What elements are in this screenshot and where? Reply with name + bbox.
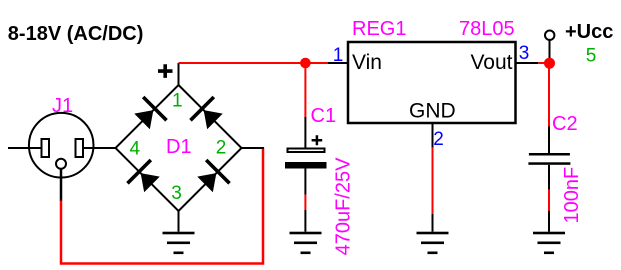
wire output node down to C2 (red): [548, 68, 550, 127]
svg-text:100nF: 100nF: [561, 167, 583, 224]
wire J1 right pin to bridge AC input 4: [83, 147, 116, 149]
wire bridge pin 3 to ground (black): [178, 211, 180, 232]
wire REG1 pin2 to ground (red): [432, 148, 434, 214]
svg-text:2: 2: [216, 138, 227, 159]
wire REG1 pin2 stub (black): [432, 124, 434, 148]
diode D1c (pin3 to pin4): [126, 159, 163, 196]
svg-text:5: 5: [586, 46, 597, 67]
bridge rectifier D1 diamond outline: [116, 85, 242, 211]
wire regulator pin1 stub: [328, 62, 348, 64]
capacitor C2: [528, 153, 570, 165]
wire J1 left stub: [8, 147, 42, 149]
node junction at C1: [300, 58, 311, 69]
wire bridge right vertex to red wire: [242, 147, 265, 149]
svg-text:Vin: Vin: [352, 51, 382, 74]
wire ground pin (black): [304, 210, 306, 232]
svg-text:GND: GND: [409, 100, 456, 123]
svg-text:8-18V (AC/DC): 8-18V (AC/DC): [8, 23, 144, 45]
capacitor C1: [285, 135, 327, 168]
wire J1 bottom pin (black): [60, 169, 63, 201]
svg-text:1: 1: [172, 91, 183, 112]
svg-text:1: 1: [333, 45, 344, 66]
connector J1 body: [29, 113, 94, 178]
svg-text:C2: C2: [552, 113, 578, 135]
wire C2 bottom pin (black): [548, 165, 550, 190]
wire ground pin (black): [548, 211, 550, 232]
wire +V rail red: [179, 62, 329, 64]
svg-text:78L05: 78L05: [459, 18, 515, 40]
wire C1 bottom pin (black): [304, 169, 306, 195]
wire junction down to C1 (red): [304, 63, 306, 117]
diode D1b (pin2 to pin1): [189, 96, 226, 133]
node junction output: [544, 58, 555, 69]
svg-text:+Ucc: +Ucc: [565, 21, 613, 43]
ground (bridge): [163, 232, 195, 254]
svg-text:D1: D1: [166, 136, 192, 158]
wire pin3 to output node (red): [538, 62, 549, 64]
wire terminal pin (black): [549, 40, 551, 58]
wire C2 to ground (red): [548, 190, 550, 211]
svg-text:4: 4: [130, 139, 141, 160]
svg-text:J1: J1: [52, 95, 73, 117]
svg-text:470uF/25V: 470uF/25V: [332, 157, 354, 256]
wire ground pin (black): [432, 214, 434, 232]
svg-text:3: 3: [171, 183, 182, 204]
svg-text:REG1: REG1: [352, 18, 406, 40]
svg-text:Vout: Vout: [470, 51, 512, 74]
wire bridge top vertex up (black): [178, 63, 180, 85]
diode D1a (pin4 to pin1): [130, 96, 167, 133]
terminal +Ucc circle: [545, 31, 554, 40]
regulator REG1 box: [348, 42, 516, 123]
wire C2 top pin (black): [548, 127, 550, 154]
ground (REG1): [417, 232, 449, 254]
svg-text:2: 2: [433, 129, 444, 150]
wire AC return red (J1 bottom to bridge pin 2): [61, 148, 263, 264]
diode D1d (pin3 to pin2): [193, 159, 230, 196]
svg-text:C1: C1: [311, 105, 337, 127]
wire REG1 pin3 stub (black): [516, 62, 539, 64]
ground (C2): [533, 232, 565, 254]
wire C1 to ground (red): [304, 195, 306, 211]
wire C1 top pin (black): [304, 117, 306, 148]
plus sign at bridge positive output: [158, 64, 173, 78]
ground (C1): [290, 232, 322, 254]
svg-text:3: 3: [519, 43, 530, 64]
